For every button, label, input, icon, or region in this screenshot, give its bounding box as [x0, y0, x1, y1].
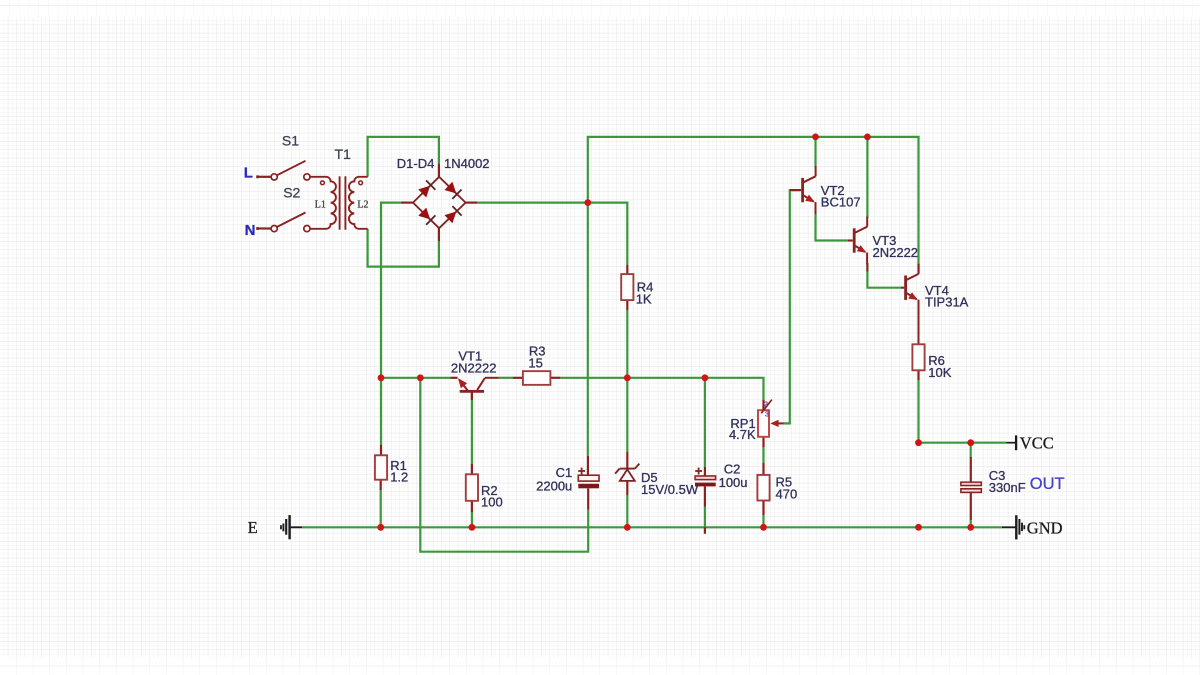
svg-text:1N4002: 1N4002	[444, 156, 490, 171]
svg-text:3: 3	[765, 410, 769, 419]
svg-text:2: 2	[764, 400, 768, 409]
svg-text:10K: 10K	[928, 365, 951, 380]
svg-text:E: E	[248, 518, 258, 537]
svg-text:4.7K: 4.7K	[729, 427, 756, 442]
svg-text:S1: S1	[282, 132, 299, 148]
svg-text:L2: L2	[357, 200, 368, 211]
svg-text:GND: GND	[1027, 519, 1063, 538]
svg-text:S2: S2	[283, 185, 300, 201]
svg-text:TIP31A: TIP31A	[925, 295, 969, 310]
svg-text:L1: L1	[315, 200, 326, 211]
svg-text:OUT: OUT	[1030, 475, 1065, 493]
svg-text:100: 100	[481, 495, 503, 510]
svg-text:T1: T1	[335, 146, 352, 162]
svg-text:BC107: BC107	[821, 195, 861, 210]
svg-text:100u: 100u	[719, 475, 748, 490]
svg-text:15: 15	[528, 355, 542, 370]
svg-text:1K: 1K	[636, 291, 652, 306]
svg-text:330nF: 330nF	[989, 480, 1026, 495]
svg-text:2N2222: 2N2222	[873, 245, 919, 260]
svg-text:N: N	[245, 222, 256, 239]
svg-text:15V/0.5W: 15V/0.5W	[641, 482, 699, 497]
svg-text:2N2222: 2N2222	[451, 360, 497, 375]
svg-text:VCC: VCC	[1020, 434, 1054, 453]
svg-text:2200u: 2200u	[536, 479, 572, 494]
svg-text:D1-D4: D1-D4	[397, 156, 435, 171]
svg-text:1.2: 1.2	[390, 470, 408, 485]
svg-text:470: 470	[776, 486, 798, 501]
svg-text:L: L	[244, 164, 253, 181]
